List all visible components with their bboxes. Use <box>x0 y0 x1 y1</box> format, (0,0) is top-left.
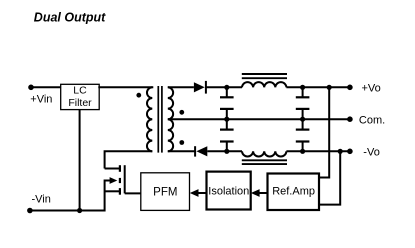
junction dot C3 top <box>300 85 305 90</box>
inductor top <box>242 82 286 87</box>
capacitor C4 bottom right <box>296 119 310 151</box>
wire +Vin to LC filter <box>31 86 61 88</box>
transistor MOSFET <box>105 165 125 195</box>
block LC Filter <box>61 84 99 109</box>
inductor top core lines <box>242 74 287 78</box>
svg-text:Isolation: Isolation <box>208 185 249 197</box>
wire secondary bottom to diode cathode <box>168 150 195 152</box>
junction dot -Vo feedback <box>338 149 343 154</box>
svg-text:+Vo: +Vo <box>362 83 381 95</box>
terminal dot +Vo <box>347 85 353 91</box>
svg-text:PFM: PFM <box>153 186 177 198</box>
terminal dot Com <box>347 116 353 122</box>
junction dot C4 bottom <box>300 149 305 154</box>
junction dot LC filter bottom rail <box>77 208 82 213</box>
svg-text:Filter: Filter <box>68 97 92 109</box>
junction dot +Vo feedback <box>327 85 332 90</box>
transformer secondary phase dot lower <box>179 140 184 145</box>
wire +Vo rail segment diode to inductor <box>206 86 242 88</box>
svg-text:Com.: Com. <box>359 115 385 127</box>
junction dot C3 bottom <box>300 117 305 122</box>
svg-text:-Vin: -Vin <box>32 194 51 206</box>
wire +Vo feedback to Ref.Amp <box>319 87 329 177</box>
capacitor C2 bottom left <box>220 119 234 151</box>
diode top rectifier <box>194 81 206 94</box>
junction dot C1 bottom <box>224 117 229 122</box>
junction dot C1 top <box>224 85 229 90</box>
svg-text:-Vo: -Vo <box>363 147 380 159</box>
terminal dot -Vin <box>27 208 33 214</box>
wire LC filter to transformer primary top <box>98 86 153 88</box>
wire primary bottom to MOSFET drain <box>105 151 153 168</box>
terminal dot -Vo <box>347 149 353 155</box>
diode bottom rectifier <box>195 146 207 156</box>
svg-text:LC: LC <box>73 84 87 96</box>
inductor bottom core lines <box>242 160 287 164</box>
wire -Vo rail segment inductor to terminal <box>286 150 350 152</box>
wire MOSFET gate to PFM <box>125 192 141 194</box>
transformer core <box>158 86 162 153</box>
wire -Vin bottom rail <box>30 210 105 212</box>
terminal dot +Vin <box>28 85 34 91</box>
capacitor C1 top left <box>220 87 234 119</box>
wire LC filter bottom to -Vin rail <box>79 109 81 210</box>
arrow Isolation to PFM <box>190 189 207 197</box>
wire MOSFET source to bottom rail <box>104 180 106 212</box>
block Ref.Amp <box>268 174 320 211</box>
capacitor C3 top right <box>296 87 310 119</box>
wire Com rail center tap to terminal <box>168 118 350 120</box>
transformer secondary phase dot upper <box>179 110 184 115</box>
wire secondary top to diode <box>168 86 194 88</box>
inductor bottom <box>242 151 286 156</box>
wire -Vo rail segment diode to inductor <box>207 150 242 152</box>
junction dot C2 bottom <box>224 149 229 154</box>
svg-text:Ref.Amp: Ref.Amp <box>272 185 315 197</box>
transformer primary winding <box>147 87 152 151</box>
block PFM <box>141 173 190 211</box>
svg-text:+Vin: +Vin <box>30 94 52 106</box>
wire -Vo feedback to Ref.Amp <box>319 151 340 204</box>
block Isolation <box>207 172 251 210</box>
transformer primary phase dot <box>136 93 141 98</box>
transformer secondary winding <box>168 87 173 151</box>
arrow Ref.Amp to Isolation <box>251 189 268 197</box>
svg-text:Dual Output: Dual Output <box>34 10 106 24</box>
wire +Vo rail segment inductor to terminal <box>286 86 350 88</box>
